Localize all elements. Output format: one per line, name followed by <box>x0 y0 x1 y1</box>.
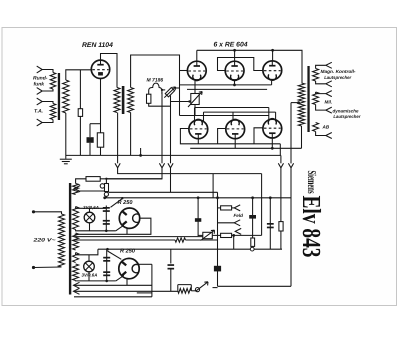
potentiometer T.A. input <box>50 104 56 120</box>
wire line y192 <box>109 191 218 193</box>
wire HT feed vertical <box>290 103 292 164</box>
wire mains wire 2 <box>34 266 62 269</box>
wire vert x198 <box>197 198 199 236</box>
wire R250-1 right loop <box>75 218 151 234</box>
wire feld r1 right <box>232 207 235 209</box>
wire lamp1 top lead <box>89 208 91 212</box>
capacitor block 217 <box>214 266 221 272</box>
wire M7186 to grid line <box>162 89 165 91</box>
wire line y240a <box>74 239 175 241</box>
capacitor cathode block <box>87 137 94 143</box>
wire link arrow4 wire <box>280 155 282 163</box>
wire V7 grid stub <box>254 128 263 144</box>
junction anode bus dot2 <box>233 49 236 52</box>
wire vert x281 cont <box>280 231 282 249</box>
capacitor fil 2a <box>103 257 110 262</box>
svg-text:Magn. Kontroll-: Magn. Kontroll- <box>321 69 356 74</box>
rheostat bias pot <box>191 94 199 105</box>
wire line y240b <box>186 239 218 241</box>
junction bus dot b <box>139 154 142 157</box>
wire line y291 <box>74 290 178 292</box>
wire ground bus <box>66 154 281 156</box>
transformer T2 secondary winding <box>128 88 134 113</box>
w1 tap arrow <box>74 186 80 192</box>
input terminal T.A. - <box>37 119 43 126</box>
wire filament bus top B <box>187 88 267 90</box>
wire bias link <box>171 101 193 103</box>
T4 secondary winding w2 <box>73 207 79 230</box>
wire link arrow3 wire <box>170 96 172 164</box>
wire V1 filament down <box>100 79 102 156</box>
transformer T2 primary winding <box>114 88 120 113</box>
T4 secondary winding w4 <box>73 253 79 263</box>
wire row to x261 <box>234 234 262 236</box>
wire R250-1 left lead diagonal <box>116 225 124 231</box>
wire bias cap lead <box>89 124 91 138</box>
svg-text:Lautsprecher: Lautsprecher <box>324 75 351 80</box>
wire V7 anode lead <box>271 138 273 148</box>
wire bias cap to bus <box>89 143 91 156</box>
wire HT2 rail <box>98 248 282 250</box>
wire V7 anode stem a <box>268 108 270 120</box>
junction dot x270 <box>269 196 272 199</box>
junction anode bus dot3 <box>271 49 274 52</box>
wire grid leak top <box>79 70 81 109</box>
wire R250-1 filament lead <box>126 228 128 234</box>
svg-text:funk: funk <box>34 82 45 88</box>
junction dot x252 <box>251 196 254 199</box>
resistor HT series <box>86 177 100 182</box>
speaker terminal 5 <box>326 133 332 139</box>
T4 secondary winding w5 <box>73 264 79 281</box>
wire line y296 <box>74 296 152 298</box>
resistor M7186 <box>147 94 151 103</box>
wire lamp1 bottom lead <box>89 223 91 231</box>
wire arrow4 cont <box>280 168 282 222</box>
T3 secondary winding 3 <box>313 123 319 132</box>
wire w2 top wire <box>76 207 107 209</box>
wire anode stem tube3 <box>272 50 274 61</box>
transformer T1 core <box>58 73 60 120</box>
wire V3 filament lead <box>234 81 236 85</box>
potentiometer radio input <box>50 73 56 90</box>
T4 secondary winding w3 <box>73 233 79 250</box>
T3 secondary winding 2 <box>313 92 319 105</box>
transformer T2 core <box>122 86 125 114</box>
wire fuse to bus <box>105 196 107 197</box>
wire M7186 bottom <box>149 103 171 106</box>
wire R250-2 right loop top <box>138 263 152 265</box>
junction dot x198 <box>197 196 200 199</box>
transformer T3 core <box>307 66 309 132</box>
wire anode bus bottom row <box>195 107 269 109</box>
wire vert x270 <box>269 198 271 249</box>
fuse lamp <box>100 184 108 197</box>
wire divider to pot <box>191 290 195 292</box>
wire arrow5 cont <box>290 168 292 286</box>
wire filter caps line 2 <box>106 249 108 281</box>
wire stub <box>140 148 142 155</box>
rectifier tube R250 no2 <box>119 258 139 278</box>
junction cap junction 1 <box>105 230 108 233</box>
junction anode dot <box>121 197 123 199</box>
triode V1 REN1104 <box>91 60 109 78</box>
wire arrow3 cont <box>170 168 172 193</box>
wire pot right wire <box>213 287 218 289</box>
wire T2 secondary bottom down <box>130 113 132 156</box>
wire R250-2 anode diagonal <box>108 251 122 259</box>
wire arrow1 cont <box>118 168 262 174</box>
wire vert x170 b <box>170 270 172 292</box>
junction bias link dot <box>188 100 190 102</box>
resistor grid leak <box>78 109 82 117</box>
terminal feld 3 <box>235 228 241 234</box>
wire R250-2 loop bottom <box>137 292 152 294</box>
wire V7 anode stem b <box>275 112 277 121</box>
output tube V5 RE604 <box>189 119 208 138</box>
wire mains wire 1 <box>34 212 62 214</box>
wire anode bus 3 <box>180 115 269 117</box>
svg-text:Siemens: Siemens <box>305 171 319 194</box>
wire R250-2 left lead diagonal <box>116 276 124 281</box>
output tube V3 RE604 <box>225 61 244 80</box>
speaker terminal 1 <box>326 62 332 68</box>
wire R250-2 filament lead <box>126 279 128 286</box>
wire w5 bottom wire <box>76 280 116 282</box>
speaker terminal 4 <box>326 107 332 113</box>
capacitor c170 <box>168 264 175 269</box>
output tube V7 RE604 <box>263 119 282 138</box>
junction tap dot <box>297 101 300 104</box>
wire feld branch top <box>218 207 221 209</box>
wire bottom return <box>218 285 292 287</box>
wire w1 resistor right <box>100 178 162 180</box>
input terminal Rundfunk - <box>37 88 43 95</box>
winding tap arrow 1 <box>74 282 80 288</box>
wire tap3 wire <box>316 92 326 94</box>
svg-text:dynamische: dynamische <box>333 109 359 114</box>
wire V5 anode lead <box>197 139 199 144</box>
wire T3 primary bottom <box>301 126 303 148</box>
wire w4 top wire <box>76 249 98 255</box>
terminal circle <box>250 247 254 251</box>
winding tap arrow 2 <box>74 288 80 294</box>
link arrow 3 <box>168 163 173 168</box>
wire V1 anode to T2 primary <box>101 54 118 88</box>
wire pot to r2 <box>212 234 220 236</box>
junction fuse top dot <box>105 178 107 180</box>
wire vert x170 <box>170 249 172 263</box>
T4 secondary winding w1 <box>73 184 79 195</box>
output tube V2 RE604 <box>187 61 206 80</box>
wire main HT bus <box>105 197 291 199</box>
wire w2 bottom wire <box>76 230 116 231</box>
resistor voltage divider <box>178 288 192 293</box>
svg-text:M 7186: M 7186 <box>147 78 164 84</box>
wire w1 top wire <box>76 179 86 184</box>
wire lamp2 top lead <box>88 255 90 261</box>
link arrow 2 <box>159 163 164 168</box>
resistor inline ww <box>175 238 186 242</box>
resistor feld 2 <box>221 233 232 237</box>
wire feld2 wire <box>218 222 235 224</box>
link arrow 1 <box>115 163 120 168</box>
junction cap junction 2 <box>105 280 108 283</box>
wire tap2 wire <box>316 81 326 84</box>
wire row down <box>233 235 235 249</box>
svg-text:Elv 843: Elv 843 <box>297 196 326 258</box>
junction junction arrow2 riser <box>161 89 163 91</box>
T3 secondary winding 1 <box>313 69 319 82</box>
svg-text:6 x RE 604: 6 x RE 604 <box>214 41 248 48</box>
svg-text:AB: AB <box>322 124 330 129</box>
junction bus dot fuse <box>103 196 106 199</box>
wire V5 grid link <box>180 129 280 144</box>
wire T2 secondary top to grid bus <box>131 55 180 116</box>
svg-text:T.A.: T.A. <box>34 109 43 115</box>
wire link arrow2 wire <box>161 92 163 163</box>
wire V5 anode stem a <box>194 108 196 121</box>
wire R250-1 anode diagonal <box>111 199 123 208</box>
wire anode bus top row <box>197 50 302 83</box>
wire pot45 to grid riser <box>174 87 179 89</box>
potentiometer grid bias 45deg <box>164 87 175 98</box>
capacitor fil 2b <box>103 271 110 276</box>
capacitor 270 <box>267 223 274 228</box>
svg-text:R 250: R 250 <box>120 249 136 255</box>
resistor 252 <box>251 238 255 246</box>
wire tap4 wire <box>316 105 326 111</box>
wire R250-2 loop side <box>151 264 153 297</box>
junction mains terminal 1 <box>32 210 35 213</box>
wire V6 anode stem <box>232 112 234 120</box>
wire vert x217 <box>217 192 219 286</box>
junction dot row <box>232 234 235 237</box>
wire tap1 wire <box>316 65 326 68</box>
capacitor fil 1a <box>103 207 110 212</box>
wire V1 filament tap <box>90 123 101 125</box>
wire filament bus top A <box>180 84 272 86</box>
wire T1 secondary top to V1 grid <box>66 70 92 80</box>
capacitor block 252 <box>249 215 256 219</box>
wire vert x252 <box>252 198 254 247</box>
terminal feld 1 <box>234 205 240 211</box>
thermal cutout M7186 dome <box>149 83 162 94</box>
wire T1 secondary bottom to ground <box>65 113 67 159</box>
junction dot x217 <box>216 196 219 199</box>
junction anode dot V7 <box>271 147 274 150</box>
rectifier tube R250 no1 <box>119 208 139 228</box>
wire V4 filament lead <box>271 81 273 85</box>
wire pot2 to input4 <box>42 120 53 123</box>
link arrow 5 <box>288 163 293 168</box>
resistor cathode bias <box>97 133 103 147</box>
transformer T1 secondary winding <box>63 80 69 113</box>
svg-text:220 V~: 220 V~ <box>32 238 55 244</box>
junction mains terminal 2 <box>32 266 35 269</box>
wire tap5 wire <box>316 132 326 136</box>
resistor 281 <box>279 222 283 231</box>
wire grid leak bottom <box>79 116 81 155</box>
wire input3 to pot <box>42 102 53 104</box>
wire pot1 to input2 <box>42 89 53 91</box>
capacitor fil 1b <box>103 220 110 225</box>
wire V2 cathode to pot <box>194 81 196 94</box>
output tube V6 RE604 <box>226 119 245 138</box>
junction filament dot V3 <box>233 84 236 87</box>
pilot lamp 1 <box>84 212 95 223</box>
wire V2 grid to riser <box>180 70 188 72</box>
speaker terminal 3 <box>326 91 332 97</box>
wire filter caps line 1 <box>105 206 107 231</box>
svg-text:Lautsprecher: Lautsprecher <box>333 114 360 119</box>
capacitor block 198 <box>195 218 201 222</box>
link arrow 4 <box>278 163 283 168</box>
wire input1 to pot <box>42 70 53 73</box>
pilot lamp 2 <box>84 261 95 272</box>
svg-text:REN 1104: REN 1104 <box>82 42 113 49</box>
wire T3 primary tap <box>291 102 299 104</box>
transformer T4 core <box>69 183 71 295</box>
wire HT line mid <box>75 236 203 238</box>
wire V5 anode stem b <box>203 112 205 122</box>
svg-text:R 250: R 250 <box>118 200 134 206</box>
wire pot row left <box>198 234 203 236</box>
speaker terminal 2 <box>326 81 332 87</box>
wire bus A to arrow rail <box>279 144 281 156</box>
junction anode2 dot <box>106 248 109 251</box>
wire V6 grid link <box>218 129 226 144</box>
wire anode stem tube1 <box>196 50 198 61</box>
svg-text:Feld: Feld <box>234 213 244 218</box>
wire r2 right <box>232 234 234 236</box>
wire V3 V4 grid link <box>218 58 264 71</box>
wire fuse top <box>105 179 107 184</box>
potentiometer filter <box>203 232 213 238</box>
wire arrow2 cont <box>106 168 162 179</box>
wire vert x261 <box>261 174 263 236</box>
wire w1 tap line <box>80 190 105 192</box>
wire line y285 <box>74 284 152 286</box>
ground <box>60 159 72 164</box>
wire lamp2 bottom lead <box>88 272 90 281</box>
svg-text:Mil.: Mil. <box>325 100 333 105</box>
transformer T4 primary winding <box>59 214 65 267</box>
output tube V4 RE604 <box>263 61 282 80</box>
wire V6 anode lead <box>234 139 236 149</box>
wire pot to line <box>194 105 196 116</box>
potentiometer tap <box>195 288 199 292</box>
svg-text:3V/0,6A: 3V/0,6A <box>83 205 99 210</box>
resistor feld 1 <box>221 206 232 210</box>
wire anode bus bottom row 2 <box>204 111 276 113</box>
transformer T3 primary winding <box>298 83 304 126</box>
wire anode stem tube2 <box>234 50 236 61</box>
wire T2 primary bottom down <box>117 113 119 164</box>
wire filament bus bottom B <box>190 147 301 149</box>
input terminal T.A. + <box>37 98 43 105</box>
input terminal Rundfunk + <box>37 66 43 73</box>
wire vert x213 <box>212 174 214 198</box>
terminal feld 2 <box>234 220 240 226</box>
